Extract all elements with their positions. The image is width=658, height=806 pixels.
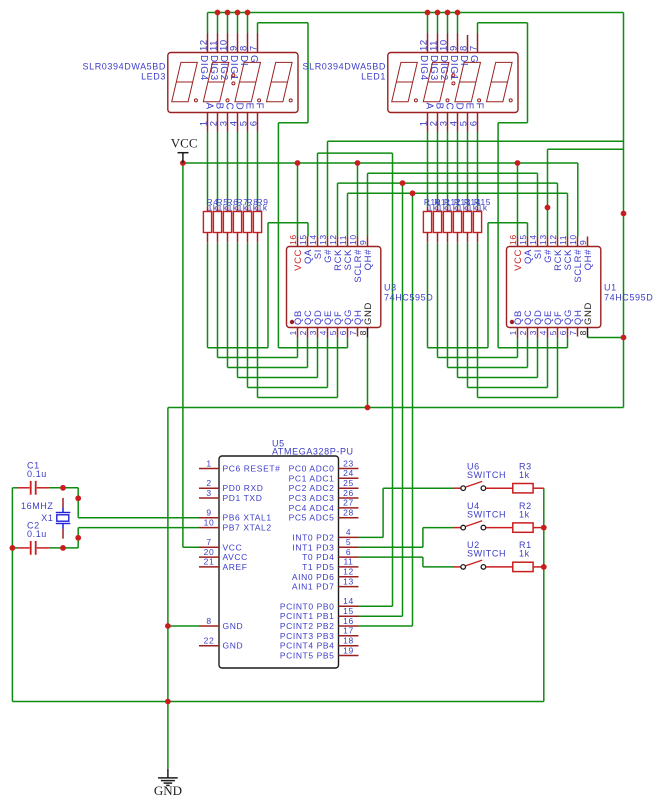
- wire: left GND vertical x=11.9: [11, 488, 13, 702]
- svg-text:B: B: [433, 103, 444, 110]
- wire: bottom GND rail y=701: [12, 701, 543, 703]
- svg-text:DIG3: DIG3: [428, 55, 439, 81]
- svg-text:12: 12: [328, 234, 338, 245]
- U5 left pin 8 GND: [199, 625, 219, 627]
- svg-text:74HC595D: 74HC595D: [604, 293, 653, 303]
- resistor R6 1k: [227, 207, 229, 212]
- svg-text:74HC595D: 74HC595D: [384, 293, 433, 303]
- U1 bottom pin 8 GND: [587, 328, 589, 338]
- shift register U1 74HC595D: [507, 247, 601, 328]
- wire: VCC rail y=162.5: [183, 162, 578, 164]
- U1 bottom pin 3 QD: [537, 328, 539, 338]
- U3 top pin 14 SI: [317, 237, 319, 247]
- svg-text:3: 3: [528, 330, 538, 335]
- svg-text:A: A: [203, 103, 214, 110]
- svg-text:7: 7: [248, 45, 259, 51]
- U5 right pin 24 PC1 ADC1: [339, 477, 359, 479]
- resistor R11 1k: [437, 207, 439, 212]
- svg-text:PC0 ADC0: PC0 ADC0: [289, 464, 335, 474]
- svg-text:26: 26: [343, 488, 354, 498]
- svg-text:1k: 1k: [519, 509, 530, 519]
- U5 right pin 11 T1 PD5: [339, 566, 359, 568]
- svg-text:12: 12: [343, 567, 354, 577]
- U3 pin1 marker: [290, 320, 294, 324]
- svg-text:24: 24: [343, 468, 354, 478]
- svg-text:2: 2: [298, 330, 308, 335]
- svg-text:10: 10: [348, 234, 358, 245]
- svg-text:5: 5: [548, 330, 558, 335]
- svg-text:13: 13: [318, 234, 328, 245]
- U1 bottom pin 2 QC: [527, 328, 529, 338]
- wire: U3 SCLR# pin10 drop: [357, 163, 359, 237]
- svg-text:8: 8: [206, 616, 211, 626]
- U1 top pin 14 SI: [537, 237, 539, 247]
- svg-text:U1: U1: [604, 283, 617, 293]
- svg-text:PC6 RESET#: PC6 RESET#: [223, 464, 281, 474]
- resistor R4 1k: [207, 207, 209, 212]
- capacitor C1 0.1u: [18, 487, 30, 489]
- svg-text:1: 1: [508, 330, 518, 335]
- svg-text:VCC: VCC: [171, 135, 198, 150]
- U5 left pin 1 PC6 RESET#: [199, 468, 219, 470]
- svg-text:7: 7: [348, 330, 358, 335]
- LED3 top pin 8 DI: [247, 33, 249, 53]
- wire: LED3 segment A-F drops to resistor network: [207, 132, 209, 207]
- U1 top pin 11 SCK: [567, 237, 569, 247]
- svg-text:13: 13: [538, 234, 548, 245]
- crystal X1 16MHZ: [62, 498, 64, 508]
- U5 right pin 6 T0 PD4: [339, 556, 359, 558]
- resistor R13 1k: [457, 207, 459, 212]
- wire: LED1 G segment to U1 QG: [477, 23, 479, 33]
- U3 top pin 11 SCK: [347, 237, 349, 247]
- svg-text:PC5 ADC5: PC5 ADC5: [289, 513, 335, 523]
- svg-text:E: E: [243, 103, 254, 110]
- wire: U5 INT1 PD3 to switch U4: [359, 546, 423, 548]
- svg-text:SLR0394DWA5BD: SLR0394DWA5BD: [302, 62, 386, 72]
- U1 pin1 marker: [510, 320, 514, 324]
- resistor R3 1k: [513, 484, 533, 493]
- svg-text:D: D: [233, 103, 244, 111]
- svg-text:22: 22: [204, 636, 215, 646]
- wire: RCK line U5 PB1 to U3/U1 RCK: [337, 183, 339, 236]
- svg-text:11: 11: [343, 557, 353, 567]
- U1 bottom pin 7 QH: [577, 328, 579, 337]
- svg-text:PCINT2 PB2: PCINT2 PB2: [280, 621, 335, 631]
- svg-text:GND: GND: [154, 783, 182, 798]
- junction dots: [215, 10, 221, 16]
- wire: U1 QA to R10: [488, 222, 528, 224]
- wire: GND trunk x=167.4: [167, 408, 169, 769]
- U3 bottom pin 2 QC: [307, 328, 309, 338]
- svg-text:PD1 TXD: PD1 TXD: [223, 493, 263, 503]
- capacitor C2 0.1u: [18, 547, 30, 549]
- U5 right pin 13 AIN1 PD7: [339, 586, 359, 588]
- svg-text:INT0 PD2: INT0 PD2: [292, 532, 334, 542]
- resistor R7 1k: [237, 207, 239, 212]
- svg-text:16: 16: [288, 234, 298, 245]
- U1 bottom pin 5 QF: [557, 328, 559, 338]
- U5 right pin 12 AIN0 PD6: [339, 576, 359, 578]
- shift register U3 74HC595D: [287, 247, 381, 328]
- U3 top pin 13 G#: [327, 237, 329, 247]
- wire: LED1 DIG pin drops: [427, 13, 429, 34]
- svg-text:3: 3: [308, 330, 318, 335]
- svg-text:PCINT3 PB3: PCINT3 PB3: [280, 631, 335, 641]
- svg-text:19: 19: [343, 645, 354, 655]
- svg-text:8: 8: [358, 330, 368, 335]
- U3 bottom pin 4 QE: [327, 328, 329, 338]
- svg-text:QH#: QH#: [583, 249, 594, 270]
- svg-text:1: 1: [288, 330, 298, 335]
- U1 top pin 13 G#: [547, 237, 549, 247]
- svg-text:PCINT0 PB0: PCINT0 PB0: [280, 601, 335, 611]
- svg-text:16: 16: [343, 616, 354, 626]
- svg-text:27: 27: [343, 498, 354, 508]
- svg-text:C: C: [223, 103, 234, 111]
- svg-text:16MHZ: 16MHZ: [21, 501, 54, 511]
- resistor R10 1k: [427, 207, 429, 212]
- svg-text:7: 7: [206, 537, 211, 547]
- GND earth symbol: [167, 769, 169, 778]
- wire: U3 GND pin8 drop: [367, 338, 369, 408]
- U3 top pin 12 RCK: [337, 237, 339, 247]
- U3 bottom pin 1 QB: [297, 328, 299, 338]
- svg-text:1k: 1k: [519, 549, 530, 559]
- LED3 top pin 12 DIG4: [207, 33, 209, 53]
- svg-text:AREF: AREF: [223, 562, 248, 572]
- wire: U3 QA to R4: [268, 222, 308, 224]
- svg-text:PB6 XTAL1: PB6 XTAL1: [223, 513, 272, 523]
- U5 right pin 28 PC5 ADC5: [339, 517, 359, 519]
- wire: U3 QH# cascade to U1 SI: [367, 173, 369, 236]
- wire: U3 QB-QF staircase to R5-R9: [217, 243, 219, 358]
- U5 left pin 7 VCC: [199, 546, 219, 548]
- svg-text:12: 12: [548, 234, 558, 245]
- U5 right pin 25 PC2 ADC2: [339, 487, 359, 489]
- U1 bottom pin 6 QG: [567, 328, 569, 338]
- svg-text:2: 2: [206, 478, 211, 488]
- svg-text:F: F: [473, 103, 484, 110]
- resistor R1 1k: [513, 562, 533, 571]
- svg-text:PC2 ADC2: PC2 ADC2: [289, 483, 335, 493]
- resistor R2 1k: [513, 523, 533, 532]
- U3 top pin 9 QH#: [367, 237, 369, 247]
- wire: C2 / XTAL2 net: [12, 547, 18, 549]
- svg-text:10: 10: [204, 517, 215, 527]
- wire: SCK line U5 PB2 to U3/U1 SCK: [347, 193, 349, 236]
- U5 left pin 9 PB6 XTAL1: [199, 517, 219, 519]
- U1 top pin 12 RCK: [557, 237, 559, 247]
- U5 right pin 18 PCINT4 PB4: [339, 645, 359, 647]
- U3 bottom pin 3 QD: [317, 328, 319, 338]
- U5 left pin 3 PD1 TXD: [199, 497, 219, 499]
- svg-text:23: 23: [343, 458, 354, 468]
- svg-text:9: 9: [358, 240, 368, 245]
- svg-text:9: 9: [578, 240, 588, 245]
- svg-text:C: C: [443, 103, 454, 111]
- svg-text:T1 PD5: T1 PD5: [302, 562, 334, 572]
- U5 left pin 20 AVCC: [199, 556, 219, 558]
- LED1 top pin 7 G: [477, 33, 479, 53]
- U5 right pin 4 INT0 PD2: [339, 536, 359, 538]
- resistor R14 1k: [467, 207, 469, 212]
- svg-text:1: 1: [206, 458, 211, 468]
- LED3 top pin 11 DIG3: [217, 33, 219, 53]
- wire: U5 INT0 PD2 to switch U6: [359, 536, 384, 538]
- svg-text:LED1: LED1: [361, 72, 386, 82]
- svg-text:4: 4: [318, 330, 328, 335]
- U3 top pin 10 SCLR#: [357, 237, 359, 247]
- svg-text:13: 13: [343, 576, 354, 586]
- svg-text:1k: 1k: [478, 203, 488, 213]
- LED1 bottom pin 2 B: [437, 113, 439, 132]
- svg-text:QH#: QH#: [363, 249, 374, 270]
- U5 right pin 15 PCINT1 PB1: [339, 615, 359, 617]
- wire: LED3 G segment to U3 QG: [257, 23, 259, 33]
- LED1 digit glyphs: [392, 62, 418, 101]
- svg-text:PC3 ADC3: PC3 ADC3: [289, 493, 335, 503]
- svg-text:GND: GND: [223, 641, 244, 651]
- LED3 digit glyphs: [172, 62, 198, 101]
- wire: U1 G# to GND net: [547, 149, 549, 236]
- U5 right pin 5 INT1 PD3: [339, 546, 359, 548]
- U3 bottom pin 7 QH: [357, 328, 359, 337]
- svg-text:PCINT4 PB4: PCINT4 PB4: [280, 641, 335, 651]
- svg-text:0.1u: 0.1u: [27, 469, 47, 479]
- svg-text:3: 3: [206, 488, 211, 498]
- U5 left pin 22 GND: [199, 645, 219, 647]
- U5 right pin 26 PC3 ADC3: [339, 497, 359, 499]
- svg-text:18: 18: [343, 636, 354, 646]
- wire: LED3 DIG pin drops: [207, 13, 209, 34]
- svg-text:1k: 1k: [258, 203, 268, 213]
- svg-text:DIG3: DIG3: [208, 55, 219, 81]
- LED1 bottom pin 5 E: [467, 113, 469, 132]
- svg-text:17: 17: [343, 626, 354, 636]
- svg-text:INT1 PD3: INT1 PD3: [292, 542, 334, 552]
- svg-text:SWITCH: SWITCH: [467, 549, 506, 559]
- svg-text:15: 15: [343, 606, 354, 616]
- svg-text:4: 4: [346, 527, 351, 537]
- svg-text:5: 5: [346, 537, 351, 547]
- svg-text:SWITCH: SWITCH: [467, 470, 506, 480]
- svg-text:AVCC: AVCC: [223, 552, 248, 562]
- svg-text:11: 11: [558, 235, 568, 245]
- LED1 bottom pin 1 A: [427, 113, 429, 132]
- svg-text:1k: 1k: [519, 470, 530, 480]
- LED3 bottom pin 2 B: [217, 113, 219, 132]
- U3 bottom pin 8 GND: [367, 328, 369, 338]
- switch U6 SWITCH: [453, 487, 461, 489]
- LED3 bottom pin 5 E: [247, 113, 249, 132]
- svg-text:14: 14: [343, 596, 354, 606]
- svg-text:GND: GND: [223, 621, 244, 631]
- wire: LED1 segment A-F drops to resistor network: [427, 132, 429, 207]
- U3 top pin 15 QA: [307, 237, 309, 247]
- svg-text:11: 11: [338, 235, 348, 245]
- LED1 top pin 8 DI: [467, 35, 469, 53]
- svg-text:6: 6: [338, 330, 348, 335]
- LED1 top pin 10 DIG2: [447, 33, 449, 53]
- U5 left pin 21 AREF: [199, 566, 219, 568]
- svg-text:VCC: VCC: [223, 542, 243, 552]
- wire: U1 VCC pin16 drop: [517, 163, 519, 237]
- svg-text:14: 14: [308, 234, 318, 245]
- U1 top pin 9 QH#: [587, 237, 589, 247]
- svg-text:6: 6: [346, 547, 351, 557]
- svg-text:28: 28: [343, 508, 354, 518]
- svg-text:8: 8: [578, 330, 588, 335]
- LED1 bottom pin 3 C: [447, 113, 449, 132]
- wire: top GND line y=12: [208, 12, 624, 14]
- svg-text:7: 7: [568, 330, 578, 335]
- LED1 top pin 11 DIG3: [437, 33, 439, 53]
- svg-text:2: 2: [518, 330, 528, 335]
- svg-text:0.1u: 0.1u: [27, 529, 47, 539]
- wire: U3 VCC pin16 drop: [297, 163, 299, 237]
- svg-text:SWITCH: SWITCH: [467, 509, 506, 519]
- U5 right pin 23 PC0 ADC0: [339, 468, 359, 470]
- svg-text:PD0 RXD: PD0 RXD: [223, 483, 264, 493]
- svg-text:E: E: [463, 103, 474, 110]
- svg-text:ATMEGA328P-PU: ATMEGA328P-PU: [272, 447, 354, 457]
- svg-text:PB7 XTAL2: PB7 XTAL2: [223, 523, 272, 533]
- svg-text:DIG4: DIG4: [198, 55, 209, 81]
- U3 top pin 16 VCC: [297, 237, 299, 247]
- svg-text:DIG4: DIG4: [418, 55, 429, 81]
- wire: right GND vertical x=623: [623, 13, 625, 408]
- svg-text:U3: U3: [384, 283, 397, 293]
- svg-text:6: 6: [468, 120, 479, 126]
- svg-text:F: F: [253, 103, 264, 110]
- wire: U1 SCLR# pin10 drop: [577, 163, 579, 237]
- U1 bottom pin 1 QB: [517, 328, 519, 338]
- svg-text:6: 6: [558, 330, 568, 335]
- U5 left pin 10 PB7 XTAL2: [199, 527, 219, 529]
- svg-text:PC1 ADC1: PC1 ADC1: [289, 473, 335, 483]
- svg-text:15: 15: [298, 234, 308, 245]
- LED3 top pin 7 G: [257, 33, 259, 53]
- wire: U3 G# to GND net: [327, 141, 329, 236]
- 7-segment display module LED1 SLR0394DWA5BD: [388, 53, 518, 113]
- svg-text:AIN1 PD7: AIN1 PD7: [292, 582, 335, 592]
- microcontroller U5 ATMEGA328P-PU: [219, 456, 339, 668]
- svg-text:5: 5: [328, 330, 338, 335]
- resistor R12 1k: [447, 207, 449, 212]
- svg-text:6: 6: [248, 120, 259, 126]
- wire: U1 QB-QF staircase to R11-R15: [437, 243, 439, 358]
- svg-text:PCINT1 PB1: PCINT1 PB1: [280, 611, 335, 621]
- LED3 top pin 9 DIG1: [237, 33, 239, 53]
- U5 right pin 17 PCINT3 PB3: [339, 635, 359, 637]
- svg-text:25: 25: [343, 478, 354, 488]
- switch U2 SWITCH: [453, 566, 461, 568]
- svg-text:D: D: [453, 103, 464, 111]
- LED3 top pin 10 DIG2: [227, 33, 229, 53]
- resistor R8 1k: [247, 207, 249, 212]
- svg-text:16: 16: [508, 234, 518, 245]
- svg-text:4: 4: [538, 330, 548, 335]
- svg-text:T0 PD4: T0 PD4: [302, 552, 334, 562]
- svg-text:PCINT5 PB5: PCINT5 PB5: [280, 651, 335, 661]
- LED3 bottom pin 1 A: [207, 113, 209, 132]
- svg-text:SLR0394DWA5BD: SLR0394DWA5BD: [82, 62, 166, 72]
- svg-text:PC4 ADC4: PC4 ADC4: [289, 503, 335, 513]
- svg-text:20: 20: [204, 547, 215, 557]
- LED1 bottom pin 4 D: [457, 113, 459, 132]
- wire: C1 / XTAL1 net: [12, 487, 18, 489]
- wire: U5 T0 PD4 to switch U2: [359, 556, 423, 558]
- svg-text:10: 10: [568, 234, 578, 245]
- U1 top pin 16 VCC: [517, 237, 519, 247]
- U5 left pin 2 PD0 RXD: [199, 487, 219, 489]
- U3 bottom pin 6 QG: [347, 328, 349, 338]
- wire: serial data U5 PB0 to U3 SI: [317, 153, 319, 236]
- wire: switch-resistor GND vertical x=543.3: [543, 488, 545, 701]
- svg-text:21: 21: [204, 557, 215, 567]
- svg-text:X1: X1: [41, 513, 53, 523]
- svg-text:7: 7: [468, 45, 479, 51]
- svg-text:LED3: LED3: [141, 72, 166, 82]
- resistor R15 1k: [477, 207, 479, 212]
- U1 top pin 10 SCLR#: [577, 237, 579, 247]
- resistor R9 1k: [257, 207, 259, 212]
- svg-text:A: A: [423, 103, 434, 110]
- LED1 bottom pin 6 F: [477, 113, 479, 132]
- U1 top pin 15 QA: [527, 237, 529, 247]
- wire: U1 GND pin8 to right vertical: [588, 337, 624, 339]
- 7-segment display module LED3 SLR0394DWA5BD: [168, 53, 298, 113]
- switch U4 SWITCH: [453, 527, 461, 529]
- U1 bottom pin 4 QE: [547, 328, 549, 338]
- U5 right pin 14 PCINT0 PB0: [339, 605, 359, 607]
- svg-text:15: 15: [518, 234, 528, 245]
- wire: VCC trunk to U5 pin7: [182, 163, 184, 547]
- wire: U5 GND pin8 connection: [168, 625, 199, 627]
- svg-text:GND: GND: [363, 302, 374, 325]
- U5 right pin 27 PC4 ADC4: [339, 507, 359, 509]
- LED3 bottom pin 4 D: [237, 113, 239, 132]
- U5 right pin 19 PCINT5 PB5: [339, 655, 359, 657]
- LED3 bottom pin 3 C: [227, 113, 229, 132]
- resistor R5 1k: [217, 207, 219, 212]
- LED1 top pin 12 DIG4: [427, 33, 429, 53]
- U5 right pin 16 PCINT2 PB2: [339, 625, 359, 627]
- LED3 bottom pin 6 F: [257, 113, 259, 132]
- svg-text:14: 14: [528, 234, 538, 245]
- LED1 top pin 9 DIG1: [457, 33, 459, 53]
- svg-text:B: B: [213, 103, 224, 110]
- svg-text:GND: GND: [583, 302, 594, 325]
- U3 bottom pin 5 QF: [337, 328, 339, 338]
- svg-text:AIN0 PD6: AIN0 PD6: [292, 572, 335, 582]
- svg-text:9: 9: [206, 508, 211, 518]
- wire: GND bus y=407: [168, 407, 624, 409]
